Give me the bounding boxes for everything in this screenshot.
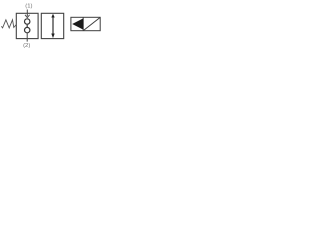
spring [1, 20, 16, 28]
poppet seat V [25, 15, 30, 18]
flow arrowhead down [51, 34, 54, 39]
port 2 stub wire [26, 33, 28, 42]
port 1 stub wire [26, 10, 28, 17]
solenoid box [71, 17, 100, 30]
bidirectional flow arrow shaft [52, 17, 54, 36]
ball 1 (upper poppet ball) [25, 19, 30, 24]
svg-text:(1): (1) [25, 4, 32, 10]
flow arrowhead up [51, 14, 54, 18]
solenoid divider [82, 17, 84, 30]
envelope position box 2 (flow position) [41, 13, 63, 38]
wire between balls [26, 24, 28, 28]
svg-text:(2): (2) [23, 43, 30, 49]
envelope position box 1 (poppet position) [16, 13, 38, 38]
proportional triangle (filled, pointing left) [72, 18, 83, 29]
ball 2 (lower ball) [25, 27, 30, 32]
solenoid slash [84, 18, 100, 31]
